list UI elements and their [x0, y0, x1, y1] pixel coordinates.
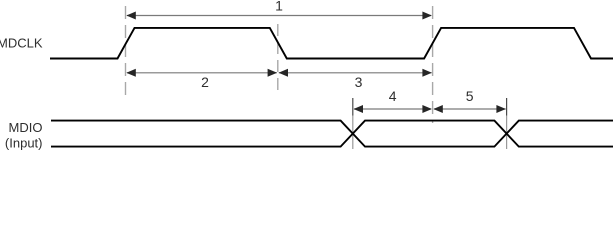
svg-text:5: 5: [466, 88, 474, 104]
dimension 2 arrow (MDCLK high time): [126, 69, 277, 77]
svg-text:2: 2: [201, 74, 209, 90]
svg-text:(Input): (Input): [5, 135, 43, 150]
dimension 4 arrow (MDIO setup time): [354, 105, 432, 113]
svg-text:MDCLK: MDCLK: [0, 35, 43, 50]
dimension 3 arrow (MDCLK low time): [279, 69, 432, 77]
svg-text:4: 4: [389, 88, 397, 104]
dimension 1 arrow (MDCLK period, rising edge to rising edge): [126, 12, 432, 20]
svg-text:3: 3: [355, 74, 363, 90]
MDIO bus waveform trace B (starts on lower rail): [51, 121, 613, 147]
svg-text:MDIO: MDIO: [9, 120, 43, 135]
tick line at second MDIO crossing: [506, 98, 508, 149]
dimension 5 arrow (MDIO hold time): [433, 105, 506, 113]
svg-text:1: 1: [275, 0, 283, 13]
tick line at first MDIO crossing: [352, 98, 354, 149]
MDCLK waveform: [50, 28, 613, 59]
MDIO bus waveform trace A (starts on upper rail): [51, 121, 613, 147]
dashed guide line at second MDCLK rising edge: [432, 6, 434, 123]
dashed guide line at MDCLK falling edge: [277, 24, 279, 96]
dashed guide line at first MDCLK rising edge: [125, 6, 127, 96]
